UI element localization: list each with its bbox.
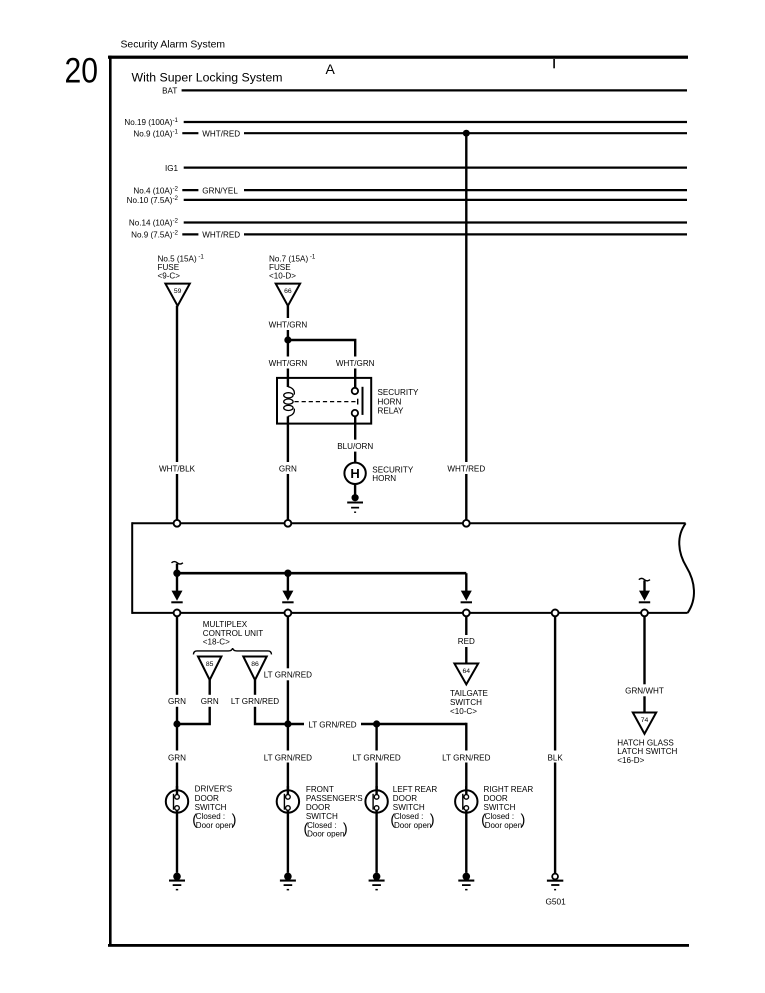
wire No.19 (100A) bus bbox=[184, 121, 687, 123]
pin circle WHT/RED entry bbox=[463, 520, 470, 527]
relay armature dashed link bbox=[295, 401, 357, 403]
pin circle LT GRN/RED exit bbox=[285, 610, 292, 617]
internal arrow terminal 1 bbox=[176, 573, 178, 591]
label WHT/RED vertical bbox=[445, 462, 487, 474]
frame left border bbox=[109, 56, 112, 946]
label WHT/BLK bbox=[156, 462, 198, 474]
label BLK bbox=[544, 751, 566, 763]
svg-text:No.19 (100A)-1: No.19 (100A)-1 bbox=[124, 117, 178, 127]
label GRN lower bbox=[166, 751, 189, 763]
svg-text:Door open: Door open bbox=[485, 821, 522, 830]
label LT GRN/RED left rear bbox=[353, 751, 401, 763]
svg-text:): ) bbox=[521, 813, 526, 829]
svg-text:IG1: IG1 bbox=[165, 164, 179, 173]
internal arrow terminal 2 bbox=[287, 573, 289, 591]
internal arrow terminal 4 with stub bbox=[639, 578, 650, 581]
svg-text:Closed :: Closed : bbox=[307, 821, 336, 830]
switch LEFT REAR DOOR SWITCH bbox=[365, 790, 387, 812]
label WHT/GRN coil leg bbox=[267, 357, 309, 369]
svg-text:RELAY: RELAY bbox=[378, 407, 405, 416]
wire multiplex pin 85 branch bbox=[177, 680, 210, 724]
wire GRN/WHT to hatch latch bbox=[643, 616, 645, 712]
svg-text:Door open: Door open bbox=[307, 830, 344, 839]
svg-text:No.5 (15A) -1: No.5 (15A) -1 bbox=[158, 254, 205, 264]
label WHT/GRN upper bbox=[267, 318, 309, 330]
wire branch to relay contact bbox=[288, 340, 355, 388]
svg-text:SECURITY: SECURITY bbox=[378, 388, 420, 397]
svg-text:): ) bbox=[343, 821, 348, 837]
wire WHT/GRN from fuse 66 down to relay coil bbox=[287, 306, 289, 387]
svg-text:RIGHT REAR: RIGHT REAR bbox=[484, 785, 534, 794]
frame bottom border bbox=[108, 944, 689, 947]
wire relay contact to horn BLU/ORN bbox=[354, 416, 356, 462]
svg-text:Door open: Door open bbox=[196, 821, 233, 830]
wire No.9 (10A) WHT/RED bus bbox=[182, 132, 198, 134]
wire No.10 (7.5A) bus bbox=[184, 199, 687, 201]
svg-text:<18-C>: <18-C> bbox=[203, 638, 230, 647]
label LT GRN/RED inline bbox=[304, 718, 361, 731]
svg-text:Closed :: Closed : bbox=[196, 812, 225, 821]
svg-text:DOOR: DOOR bbox=[306, 803, 330, 812]
connector triangle 64 tailgate bbox=[454, 664, 478, 685]
svg-text:GRN: GRN bbox=[168, 753, 186, 762]
svg-text:SWITCH: SWITCH bbox=[450, 698, 482, 707]
svg-text:85: 85 bbox=[206, 661, 214, 668]
svg-text:SWITCH: SWITCH bbox=[195, 803, 227, 812]
frame top border bbox=[108, 56, 688, 59]
svg-text:59: 59 bbox=[174, 288, 182, 295]
svg-text:Closed :: Closed : bbox=[394, 812, 423, 821]
svg-text:WHT/BLK: WHT/BLK bbox=[159, 464, 196, 473]
node junction WHT/GRN bbox=[284, 336, 291, 343]
connector triangle 74 hatch bbox=[633, 713, 656, 734]
svg-text:GRN/YEL: GRN/YEL bbox=[202, 186, 238, 195]
svg-text:WHT/RED: WHT/RED bbox=[447, 464, 485, 473]
svg-text:BAT: BAT bbox=[162, 86, 177, 95]
wire LT GRN/RED (left rear door) bbox=[375, 724, 377, 791]
svg-text:No.14 (10A)-2: No.14 (10A)-2 bbox=[129, 218, 179, 228]
wire multiplex pin 86 branch bbox=[255, 680, 288, 724]
svg-text:74: 74 bbox=[641, 717, 649, 724]
svg-text:HORN: HORN bbox=[372, 474, 396, 483]
svg-text:HATCH GLASS: HATCH GLASS bbox=[617, 738, 674, 747]
svg-text:SWITCH: SWITCH bbox=[484, 803, 516, 812]
svg-text:LT GRN/RED: LT GRN/RED bbox=[264, 671, 312, 680]
svg-text:DOOR: DOOR bbox=[195, 794, 219, 803]
svg-text:HORN: HORN bbox=[378, 397, 402, 406]
zone tick mark bbox=[553, 59, 555, 68]
svg-text:RED: RED bbox=[458, 637, 475, 646]
svg-text:No.4 (10A)-2: No.4 (10A)-2 bbox=[133, 185, 178, 195]
svg-text:With Super Locking System: With Super Locking System bbox=[132, 71, 283, 85]
svg-text:LT GRN/RED: LT GRN/RED bbox=[231, 697, 279, 706]
svg-text:LEFT REAR: LEFT REAR bbox=[393, 785, 438, 794]
svg-text:LT GRN/RED: LT GRN/RED bbox=[442, 753, 490, 762]
wire LT GRN/RED horizontal run bbox=[288, 723, 466, 725]
label LT GRN/RED branch86 bbox=[231, 695, 279, 707]
svg-text:G501: G501 bbox=[545, 896, 566, 906]
svg-text:<9-C>: <9-C> bbox=[158, 272, 181, 281]
wire WHT/BLK vertical from fuse 59 bbox=[176, 306, 178, 524]
ground horn bbox=[352, 494, 359, 501]
ground G501 bbox=[552, 874, 558, 880]
wire No.4 (10A) GRN/YEL bus bbox=[182, 189, 198, 191]
svg-text:WHT/GRN: WHT/GRN bbox=[269, 359, 308, 368]
wire WHT/RED drop from bus bbox=[465, 133, 467, 523]
internal arrow terminal 3 bbox=[465, 573, 467, 591]
pin circle BLK exit bbox=[552, 610, 559, 617]
label LT GRN/RED right rear bbox=[442, 751, 490, 763]
ground right rear door bbox=[463, 873, 471, 881]
label GRN branch85 bbox=[198, 695, 221, 707]
fuse connector triangle 59 bbox=[165, 284, 189, 306]
fuse connector triangle 66 bbox=[276, 284, 300, 306]
wire internal stub continuation bbox=[172, 562, 183, 565]
relay box bbox=[277, 378, 371, 424]
svg-text:No.9 (7.5A)-2: No.9 (7.5A)-2 bbox=[131, 230, 178, 240]
svg-text:<10-C>: <10-C> bbox=[450, 707, 477, 716]
svg-text:LT GRN/RED: LT GRN/RED bbox=[264, 753, 312, 762]
svg-text:Closed :: Closed : bbox=[485, 812, 514, 821]
relay contact blade bbox=[362, 387, 364, 415]
svg-text:DRIVER'S: DRIVER'S bbox=[195, 784, 233, 793]
svg-text:A: A bbox=[326, 61, 336, 77]
node junction left rear branch bbox=[373, 720, 380, 727]
svg-text:CONTROL UNIT: CONTROL UNIT bbox=[203, 629, 263, 638]
relay contact terminals bbox=[352, 388, 358, 394]
pin circle GRN/WHT exit bbox=[641, 610, 648, 617]
svg-text:): ) bbox=[430, 813, 435, 829]
wire BLK to G501 bbox=[554, 616, 556, 873]
label LT GRN/RED top bbox=[264, 668, 312, 680]
label GRN upper bbox=[166, 695, 189, 707]
svg-text:GRN: GRN bbox=[168, 697, 186, 706]
wire No.14 (10A) bus bbox=[184, 221, 687, 223]
svg-text:DOOR: DOOR bbox=[484, 794, 508, 803]
svg-text:TAILGATE: TAILGATE bbox=[450, 689, 489, 698]
svg-text:FRONT: FRONT bbox=[306, 785, 334, 794]
wire horn to ground bbox=[354, 484, 356, 498]
box bottom edge bbox=[132, 612, 687, 614]
svg-text:Door open: Door open bbox=[394, 821, 431, 830]
svg-text:PASSENGER'S: PASSENGER'S bbox=[306, 794, 363, 803]
wire LT GRN/RED (right rear door) bbox=[465, 723, 467, 791]
box left edge bbox=[131, 522, 133, 614]
wire GRN main (driver door) bbox=[176, 616, 178, 790]
svg-text:SWITCH: SWITCH bbox=[306, 812, 338, 821]
svg-text:SWITCH: SWITCH bbox=[393, 803, 425, 812]
brace over triangles bbox=[193, 648, 271, 654]
box torn right edge bbox=[679, 523, 694, 613]
wire No.9 (7.5A) WHT/RED bus bbox=[182, 233, 198, 235]
horn circle H bbox=[344, 463, 365, 484]
wire RED to tailgate switch bbox=[465, 616, 467, 663]
svg-text:BLK: BLK bbox=[547, 753, 563, 762]
svg-text:Security Alarm System: Security Alarm System bbox=[121, 40, 226, 51]
wire IG1 bus bbox=[184, 167, 687, 169]
svg-text:WHT/RED: WHT/RED bbox=[202, 129, 240, 138]
svg-text:GRN: GRN bbox=[201, 697, 219, 706]
wire coil to GRN out bbox=[287, 416, 289, 523]
svg-text:): ) bbox=[232, 813, 237, 829]
svg-text:LATCH SWITCH: LATCH SWITCH bbox=[617, 747, 677, 756]
switch DRIVER'S DOOR SWITCH bbox=[166, 790, 188, 812]
svg-text:SECURITY: SECURITY bbox=[372, 465, 414, 474]
wire internal bus bbox=[177, 572, 466, 575]
svg-text:H: H bbox=[350, 466, 359, 481]
svg-text:LT GRN/RED: LT GRN/RED bbox=[352, 753, 400, 762]
svg-text:<16-D>: <16-D> bbox=[617, 756, 644, 765]
svg-text:DOOR: DOOR bbox=[393, 794, 417, 803]
label GRN/WHT bbox=[623, 684, 667, 696]
node junction driver branch bbox=[173, 720, 180, 727]
label LT GRN/RED lower bbox=[264, 751, 312, 763]
svg-text:GRN/WHT: GRN/WHT bbox=[625, 687, 664, 696]
node internal junction 2 bbox=[284, 570, 291, 577]
node internal junction 1 bbox=[173, 570, 180, 577]
connector triangle 85 bbox=[198, 657, 221, 681]
connector triangle 86 bbox=[243, 657, 266, 681]
pin circle GRN entry bbox=[285, 520, 292, 527]
svg-text:GRN: GRN bbox=[279, 464, 297, 473]
label GRN bbox=[276, 462, 299, 474]
svg-text:66: 66 bbox=[284, 288, 292, 295]
svg-text:No.10 (7.5A)-2: No.10 (7.5A)-2 bbox=[127, 195, 179, 205]
svg-text:MULTIPLEX: MULTIPLEX bbox=[203, 620, 248, 629]
ground front passenger door bbox=[284, 873, 292, 881]
label WHT/GRN contact leg bbox=[334, 357, 376, 369]
wire BAT bus bbox=[182, 89, 687, 91]
switch RIGHT REAR DOOR SWITCH bbox=[455, 790, 477, 812]
wire LT GRN/RED (front passenger door) bbox=[287, 616, 289, 790]
svg-text:WHT/GRN: WHT/GRN bbox=[336, 359, 375, 368]
svg-text:20: 20 bbox=[65, 52, 99, 91]
svg-text:WHT/RED: WHT/RED bbox=[202, 231, 240, 240]
node junction on WHT/RED bus bbox=[463, 130, 470, 137]
svg-text:No.9 (10A)-1: No.9 (10A)-1 bbox=[133, 128, 178, 138]
svg-text:WHT/GRN: WHT/GRN bbox=[269, 320, 308, 329]
svg-text:No.7 (15A) -1: No.7 (15A) -1 bbox=[269, 254, 316, 264]
pin circle WHT/BLK entry bbox=[174, 520, 181, 527]
node junction passenger branch bbox=[284, 720, 291, 727]
svg-text:86: 86 bbox=[251, 661, 259, 668]
box top edge bbox=[132, 522, 685, 524]
label RED bbox=[455, 635, 477, 647]
relay coil bbox=[288, 387, 294, 395]
svg-text:BLU/ORN: BLU/ORN bbox=[337, 442, 373, 451]
switch FRONT PASSENGER'S DOOR SWITCH bbox=[277, 790, 299, 812]
svg-text:<10-D>: <10-D> bbox=[269, 272, 296, 281]
ground driver door bbox=[173, 873, 181, 881]
pin circle GRN exit bbox=[174, 610, 181, 617]
ground left rear door bbox=[373, 873, 381, 881]
svg-text:LT GRN/RED: LT GRN/RED bbox=[308, 720, 356, 729]
label BLU/ORN bbox=[335, 440, 375, 452]
svg-text:64: 64 bbox=[463, 668, 471, 675]
pin circle RED exit bbox=[463, 610, 470, 617]
